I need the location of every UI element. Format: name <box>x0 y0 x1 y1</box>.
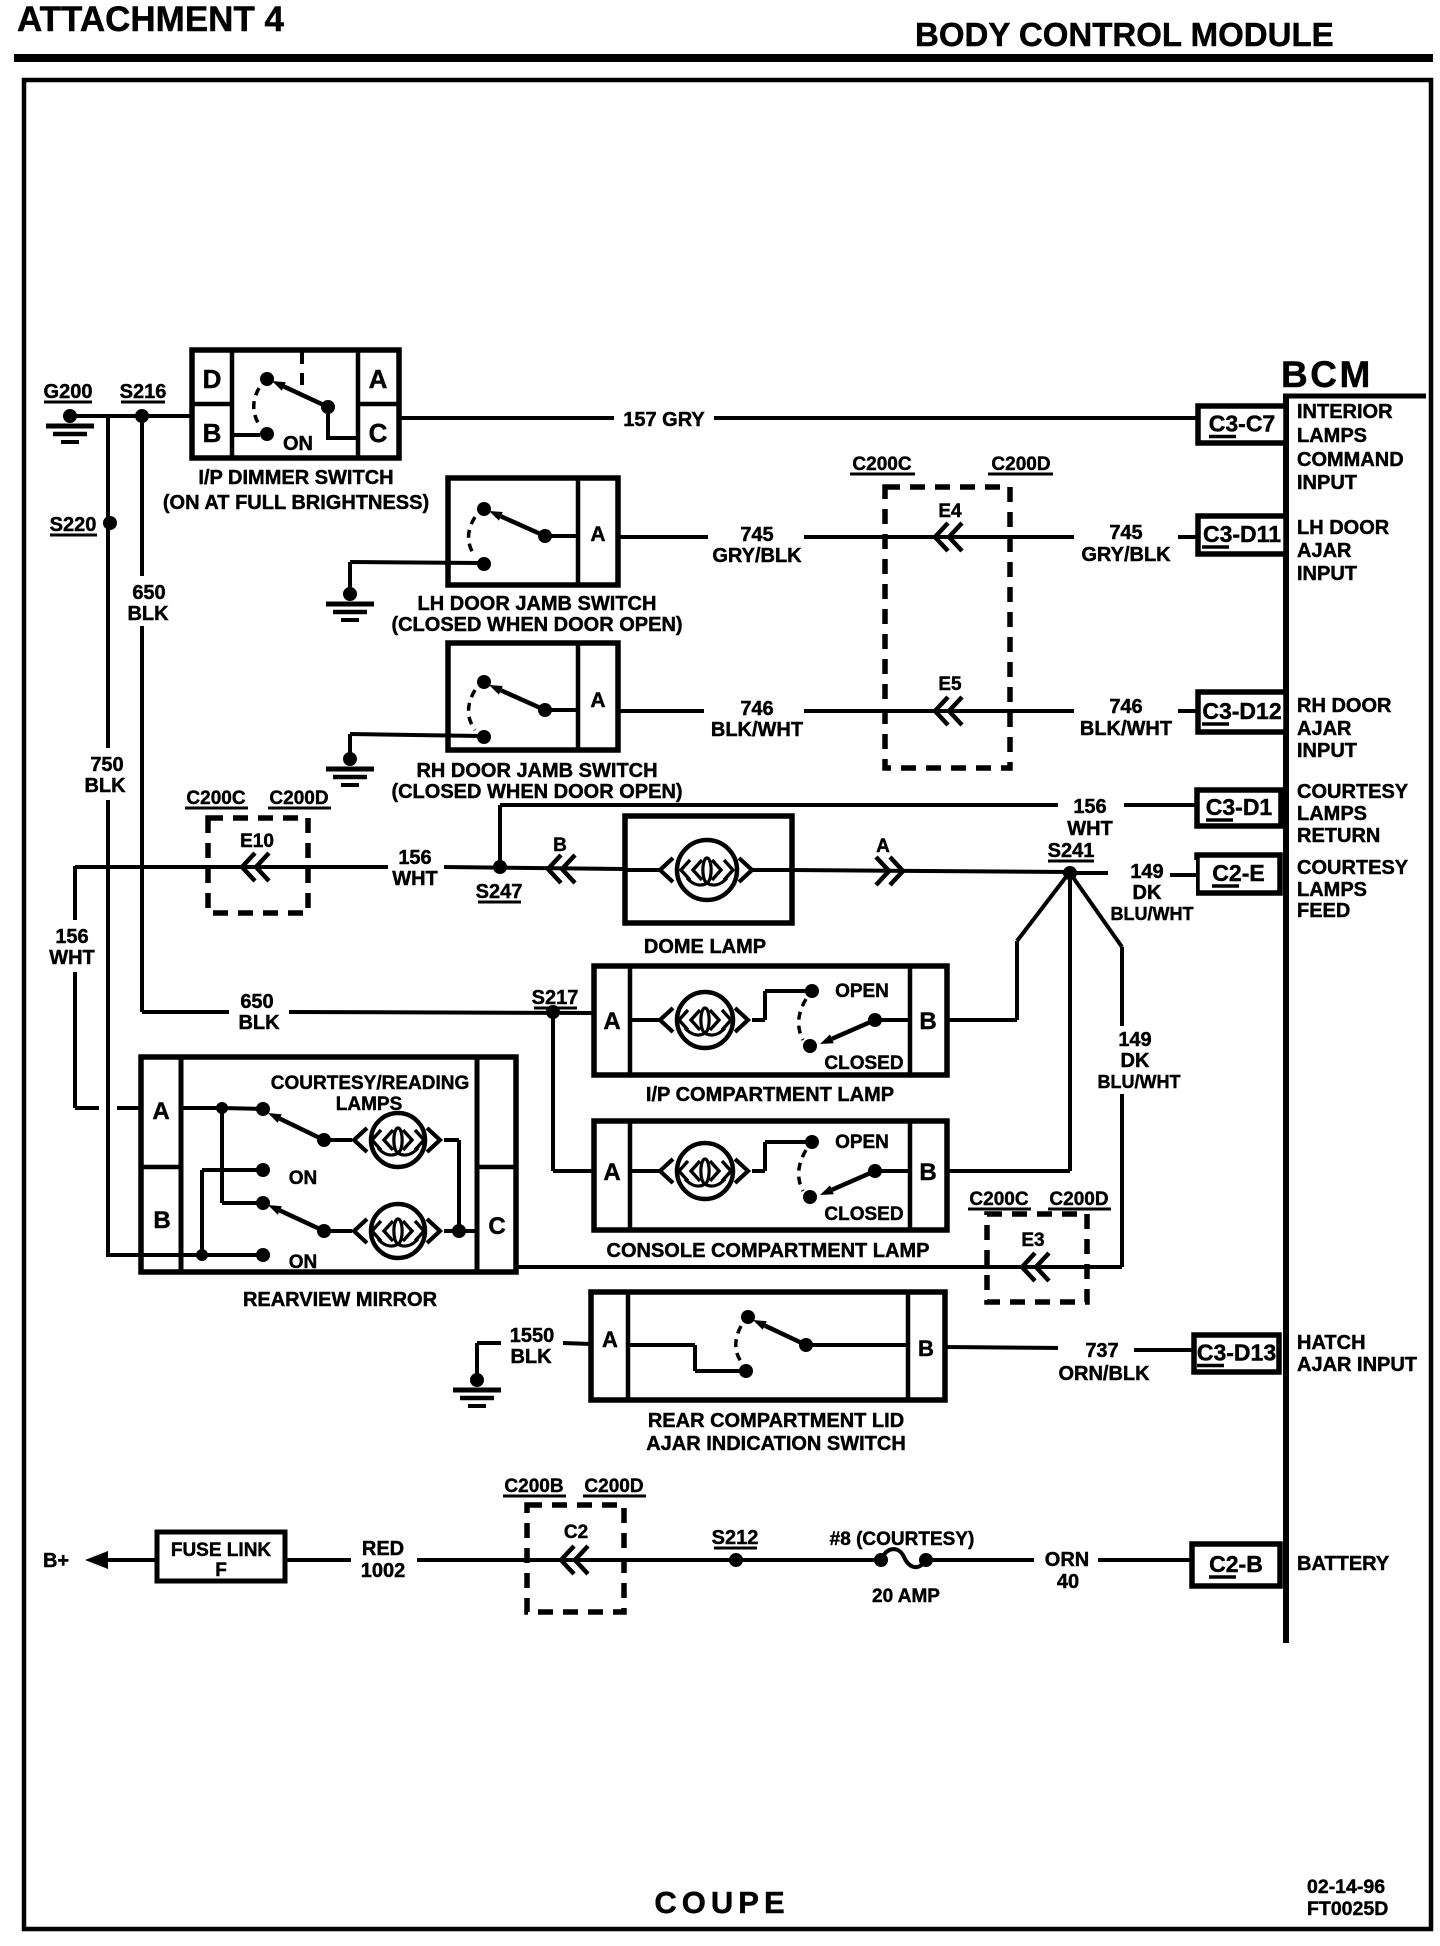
svg-text:(CLOSED WHEN DOOR OPEN): (CLOSED WHEN DOOR OPEN) <box>391 614 682 636</box>
svg-text:AJAR: AJAR <box>1297 540 1352 562</box>
svg-text:149: 149 <box>1130 861 1163 883</box>
svg-text:156: 156 <box>398 847 431 869</box>
wire: rear compartment switch 1550 BLK ground side <box>477 1341 501 1345</box>
svg-text:(ON AT FULL BRIGHTNESS): (ON AT FULL BRIGHTNESS) <box>163 492 429 514</box>
wire: to rearview mirror A (hops over 750 BLK) <box>75 1106 99 1110</box>
wire label 746 BLK/WHT (right) <box>1074 690 1178 740</box>
splice S216 <box>135 409 149 423</box>
wire: S247 up to courtesy lamps return <box>498 805 502 867</box>
svg-text:HATCH: HATCH <box>1297 1332 1366 1354</box>
wire label 149 DK BLU/WHT (vertical) <box>1094 1026 1182 1094</box>
svg-text:INPUT: INPUT <box>1297 472 1357 494</box>
ground rear compartment switch <box>470 1373 484 1387</box>
C2 arrows <box>561 1546 588 1574</box>
svg-text:B: B <box>918 1336 934 1361</box>
wire: 149 DK BLU/WHT S241 to C2-E <box>1070 871 1108 875</box>
fuse #8 20 AMP <box>874 1553 888 1567</box>
svg-text:B: B <box>553 835 567 856</box>
svg-text:COMMAND: COMMAND <box>1297 449 1404 471</box>
svg-text:LAMPS: LAMPS <box>1297 803 1367 825</box>
svg-text:ATTACHMENT 4: ATTACHMENT 4 <box>17 0 285 39</box>
svg-text:B: B <box>919 1159 936 1186</box>
svg-text:A: A <box>590 689 605 712</box>
wire: G200 to S216 to dimmer switch <box>70 414 192 418</box>
svg-text:C200D: C200D <box>991 454 1050 475</box>
svg-text:BLK: BLK <box>84 775 126 797</box>
wire: S217 down to console lamp A <box>551 1012 555 1171</box>
svg-text:C3-D12: C3-D12 <box>1202 698 1281 724</box>
svg-text:ON: ON <box>289 1252 318 1273</box>
svg-text:RED: RED <box>362 1538 404 1560</box>
dome lamp box <box>625 816 792 923</box>
svg-text:ORN/BLK: ORN/BLK <box>1058 1363 1150 1385</box>
svg-text:737: 737 <box>1085 1340 1118 1362</box>
E4 arrows <box>935 523 962 551</box>
svg-text:FEED: FEED <box>1297 900 1350 922</box>
wire: console lamp internal <box>630 1169 660 1173</box>
BCM pin C2-B <box>1192 1544 1280 1586</box>
I/P compartment lamp box <box>594 966 947 1075</box>
svg-text:A: A <box>603 1008 620 1035</box>
wire: 737 ORN/BLK rear switch B to C3-D13 <box>945 1347 1064 1348</box>
svg-text:C2-E: C2-E <box>1212 860 1264 886</box>
svg-text:BLU/WHT: BLU/WHT <box>1111 904 1194 924</box>
svg-text:OPEN: OPEN <box>835 1132 889 1153</box>
svg-text:ORN: ORN <box>1045 1549 1089 1571</box>
RH door jamb switch box <box>448 643 618 750</box>
I/P compartment lamp switch <box>805 984 819 998</box>
wire label 156 WHT (vertical) <box>47 920 99 970</box>
svg-text:156: 156 <box>55 926 88 948</box>
svg-text:S216: S216 <box>120 381 167 403</box>
wire: I/P lamp internal <box>630 1018 660 1022</box>
BCM pin C3-D12 <box>1198 692 1286 732</box>
dome lamp pin B arrows <box>548 855 575 883</box>
svg-text:COURTESY/READING: COURTESY/READING <box>271 1073 469 1094</box>
rear compartment lid ajar indication switch box <box>591 1292 945 1400</box>
console compartment lamp bulb <box>677 1143 733 1199</box>
svg-text:745: 745 <box>1109 522 1142 544</box>
connector C200B/C200D pass-through C2 (dashed box) <box>527 1505 624 1612</box>
svg-text:GRY/BLK: GRY/BLK <box>1081 544 1171 566</box>
svg-text:BODY CONTROL MODULE: BODY CONTROL MODULE <box>915 16 1334 53</box>
svg-text:FUSE LINK: FUSE LINK <box>171 1540 272 1561</box>
svg-text:C2-B: C2-B <box>1209 1551 1263 1577</box>
wire label 157 GRY <box>614 406 714 430</box>
dimmer switch contacts <box>260 372 274 386</box>
svg-text:WHT: WHT <box>1067 818 1113 840</box>
svg-text:LH DOOR JAMB SWITCH: LH DOOR JAMB SWITCH <box>418 593 657 615</box>
wire label 650 BLK (horizontal) <box>231 992 287 1034</box>
console compartment lamp switch <box>805 1135 819 1149</box>
rearview mirror courtesy/reading lamps box <box>141 1057 516 1272</box>
wire: mirror internal lamp outputs to C <box>324 1138 352 1142</box>
svg-text:REARVIEW MIRROR: REARVIEW MIRROR <box>243 1289 438 1311</box>
svg-text:C200D: C200D <box>584 1476 643 1497</box>
svg-text:A: A <box>602 1327 618 1352</box>
I/P dimmer switch box <box>192 350 399 458</box>
console compartment lamp box <box>594 1121 947 1230</box>
LH jamb switch contacts <box>477 502 491 516</box>
svg-text:BLK: BLK <box>127 603 169 625</box>
svg-text:750: 750 <box>90 754 123 776</box>
svg-text:C2: C2 <box>564 1522 588 1543</box>
svg-text:20 AMP: 20 AMP <box>872 1586 940 1607</box>
rearview mirror lamp 1 <box>371 1113 425 1167</box>
wire: rear compartment switch internal <box>628 1343 695 1347</box>
svg-text:WHT: WHT <box>49 947 95 969</box>
wire: dome lamp A to S241 <box>792 870 1070 872</box>
svg-text:C200D: C200D <box>269 788 328 809</box>
wire: 156 WHT to BCM C3-D1 <box>500 803 1058 807</box>
svg-text:E5: E5 <box>938 674 962 695</box>
svg-text:B+: B+ <box>43 1550 69 1572</box>
svg-text:B: B <box>919 1008 936 1035</box>
svg-text:S241: S241 <box>1048 840 1095 862</box>
svg-text:S247: S247 <box>476 881 523 903</box>
header rule <box>14 54 1433 62</box>
svg-text:02-14-96: 02-14-96 <box>1307 1876 1385 1898</box>
wire: 157 GRY dimmer C to BCM C3-C7 <box>399 416 616 420</box>
wire label 1550 BLK <box>503 1321 561 1367</box>
BCM module boundary <box>1283 394 1289 1643</box>
svg-text:746: 746 <box>1109 696 1142 718</box>
ground LH door jamb switch <box>343 587 357 601</box>
svg-text:650: 650 <box>240 991 273 1013</box>
svg-text:#8 (COURTESY): #8 (COURTESY) <box>830 1529 975 1550</box>
svg-text:F: F <box>215 1560 227 1581</box>
svg-text:LAMPS: LAMPS <box>1297 425 1367 447</box>
B+ arrow <box>85 1551 108 1569</box>
dome lamp bulb <box>677 840 737 900</box>
svg-text:A: A <box>876 836 890 857</box>
svg-text:BATTERY: BATTERY <box>1297 1553 1390 1575</box>
svg-text:E3: E3 <box>1021 1230 1044 1251</box>
svg-text:C3-C7: C3-C7 <box>1209 411 1275 437</box>
E10 arrows <box>242 853 269 881</box>
wire label RED 1002 <box>353 1533 415 1581</box>
splice S247 <box>493 860 507 874</box>
svg-text:INTERIOR: INTERIOR <box>1297 401 1393 423</box>
LH door jamb switch box <box>448 478 618 585</box>
svg-text:B: B <box>203 418 222 448</box>
svg-text:745: 745 <box>740 524 773 546</box>
svg-text:LH DOOR: LH DOOR <box>1297 517 1390 539</box>
svg-text:DOME LAMP: DOME LAMP <box>644 936 766 958</box>
svg-text:I/P COMPARTMENT LAMP: I/P COMPARTMENT LAMP <box>646 1084 894 1106</box>
ground RH door jamb switch <box>343 752 357 766</box>
wire stub into C2-E <box>1170 873 1197 877</box>
splice S241 <box>1063 866 1077 880</box>
svg-text:C: C <box>369 418 388 448</box>
svg-text:C: C <box>488 1213 505 1240</box>
splice S212 <box>729 1553 743 1567</box>
connector C200C/C200D pass-through E3 (dashed box) <box>987 1214 1087 1302</box>
svg-text:C200C: C200C <box>852 454 911 475</box>
svg-text:ON: ON <box>289 1168 318 1189</box>
svg-text:INPUT: INPUT <box>1297 740 1357 762</box>
BCM pin C2-E <box>1197 855 1280 893</box>
wire: battery feed B+ fuse link to C2-B <box>107 1558 157 1562</box>
svg-text:157 GRY: 157 GRY <box>623 409 705 431</box>
wire: mirror C through E3 <box>516 1265 1122 1269</box>
svg-text:1550: 1550 <box>510 1325 555 1347</box>
wire label ORN 40 <box>1036 1544 1098 1592</box>
wire label 149 DK BLU/WHT (C2-E) <box>1110 860 1196 924</box>
wire: mirror internal A branch <box>181 1106 222 1110</box>
svg-text:A: A <box>603 1159 620 1186</box>
wire label 750 BLK (vertical) <box>82 748 130 798</box>
svg-text:BCM: BCM <box>1281 354 1373 395</box>
svg-text:CLOSED: CLOSED <box>824 1053 903 1074</box>
svg-text:COURTESY: COURTESY <box>1297 857 1409 879</box>
BCM pin C3-D1 <box>1197 790 1281 826</box>
wire: 156 WHT through E10 to S247 and dome lamp <box>75 865 388 869</box>
svg-text:746: 746 <box>740 698 773 720</box>
connector C200C/C200D pass-through E10 (dashed box) <box>208 818 308 913</box>
dome lamp pin A arrows <box>876 857 903 885</box>
svg-text:RETURN: RETURN <box>1297 825 1380 847</box>
svg-text:AJAR: AJAR <box>1297 718 1352 740</box>
splice S220 <box>103 516 117 530</box>
svg-text:CONSOLE COMPARTMENT LAMP: CONSOLE COMPARTMENT LAMP <box>607 1240 930 1262</box>
svg-text:S217: S217 <box>532 987 579 1009</box>
svg-text:A: A <box>152 1098 169 1125</box>
svg-text:DK: DK <box>1121 1050 1150 1072</box>
svg-text:G200: G200 <box>44 381 93 403</box>
wire: 746 BLK/WHT RH jamb to C3-D12 <box>618 709 704 713</box>
svg-text:AJAR INDICATION SWITCH: AJAR INDICATION SWITCH <box>646 1433 906 1455</box>
wire: 650 BLK horizontal to S217 and I/P lamp A <box>142 1010 229 1014</box>
wire label 745 GRY/BLK (right) <box>1074 516 1178 566</box>
svg-text:E10: E10 <box>240 831 274 852</box>
svg-text:B: B <box>153 1207 170 1234</box>
wire label 745 GRY/BLK (left) <box>708 518 804 566</box>
wire: 156 WHT vertical to mirror A <box>73 866 77 920</box>
I/P compartment lamp bulb <box>677 992 733 1048</box>
svg-text:C3-D11: C3-D11 <box>1203 521 1281 547</box>
svg-text:COUPE: COUPE <box>654 1885 789 1920</box>
ground G200 <box>63 409 77 423</box>
svg-text:LAMPS: LAMPS <box>336 1094 403 1115</box>
svg-text:OPEN: OPEN <box>835 981 889 1002</box>
RH jamb switch contacts <box>477 675 491 689</box>
svg-text:CLOSED: CLOSED <box>824 1204 903 1225</box>
svg-text:FT0025D: FT0025D <box>1307 1898 1388 1920</box>
wire label 737 ORN/BLK <box>1058 1336 1134 1362</box>
BCM pin C3-D13 <box>1194 1335 1279 1372</box>
fuse link F box <box>157 1532 285 1581</box>
wire: 650 BLK vertical from S216 <box>140 416 144 576</box>
svg-text:1002: 1002 <box>361 1560 406 1582</box>
svg-text:C3-D13: C3-D13 <box>1197 1340 1276 1366</box>
svg-text:BLK: BLK <box>238 1012 280 1034</box>
svg-text:C3-D1: C3-D1 <box>1206 794 1273 820</box>
svg-text:E4: E4 <box>938 501 962 522</box>
wire: mirror internal ON branch <box>202 1168 258 1172</box>
svg-text:RH DOOR: RH DOOR <box>1297 695 1392 717</box>
svg-text:D: D <box>203 364 222 394</box>
wire label 746 BLK/WHT (left) <box>704 692 804 740</box>
svg-text:BLU/WHT: BLU/WHT <box>1098 1072 1181 1092</box>
svg-text:I/P DIMMER SWITCH: I/P DIMMER SWITCH <box>198 467 393 489</box>
splice S217 <box>546 1005 560 1019</box>
wire: I/P lamp B to S241 <box>947 1018 1017 1022</box>
rearview mirror lamp 2 <box>371 1204 425 1258</box>
svg-text:C200C: C200C <box>186 788 245 809</box>
svg-text:AJAR INPUT: AJAR INPUT <box>1297 1354 1417 1376</box>
svg-text:BLK/WHT: BLK/WHT <box>711 719 803 741</box>
svg-text:(CLOSED WHEN DOOR OPEN): (CLOSED WHEN DOOR OPEN) <box>391 781 682 803</box>
svg-text:BLK/WHT: BLK/WHT <box>1080 718 1172 740</box>
svg-text:WHT: WHT <box>392 868 438 890</box>
svg-text:A: A <box>590 523 605 546</box>
svg-text:DK: DK <box>1133 882 1162 904</box>
wire: 750 BLK to rearview mirror B <box>106 1253 263 1257</box>
svg-text:REAR COMPARTMENT LID: REAR COMPARTMENT LID <box>648 1410 904 1432</box>
connector C200C/C200D pass-through E4 E5 (dashed box) <box>885 487 1010 768</box>
svg-text:RH DOOR JAMB SWITCH: RH DOOR JAMB SWITCH <box>416 760 657 782</box>
svg-text:A: A <box>369 364 388 394</box>
svg-text:GRY/BLK: GRY/BLK <box>712 545 802 567</box>
rearview mirror switches <box>216 1102 228 1114</box>
svg-text:C200D: C200D <box>1049 1189 1108 1210</box>
svg-text:S220: S220 <box>50 514 97 536</box>
wire label 156 WHT (to C3-D1) <box>1058 792 1122 838</box>
wire label 156 WHT (E10 row) <box>390 846 442 890</box>
BCM pin C3-D11 <box>1198 516 1286 554</box>
svg-text:156: 156 <box>1073 796 1106 818</box>
svg-text:LAMPS: LAMPS <box>1297 879 1367 901</box>
svg-text:650: 650 <box>132 582 165 604</box>
svg-text:C200C: C200C <box>969 1189 1028 1210</box>
wire label 650 BLK (vertical) <box>124 576 172 626</box>
svg-text:149: 149 <box>1118 1029 1151 1051</box>
wire: 750 BLK vertical from G200/S220 <box>106 416 110 748</box>
svg-text:BLK: BLK <box>510 1346 552 1368</box>
svg-text:C200B: C200B <box>504 1476 563 1497</box>
wire: 745 GRY/BLK LH jamb to C3-D11 <box>618 535 708 539</box>
svg-text:S212: S212 <box>712 1527 759 1549</box>
wire: S241 down to console lamp B <box>1068 873 1072 1171</box>
svg-text:ON: ON <box>283 433 313 455</box>
wire: 149 DK BLU/WHT S241 to E3 <box>1070 873 1122 947</box>
BCM pin C3-C7 <box>1198 406 1286 443</box>
wire: RH jamb switch ground leg <box>350 734 480 736</box>
svg-text:COURTESY: COURTESY <box>1297 781 1409 803</box>
rear compartment switch contacts <box>741 1310 755 1324</box>
wire: LH jamb switch ground leg <box>350 562 480 563</box>
svg-text:40: 40 <box>1057 1571 1079 1593</box>
svg-text:INPUT: INPUT <box>1297 563 1357 585</box>
E3 arrows <box>1022 1253 1049 1281</box>
E5 arrows <box>935 697 962 725</box>
